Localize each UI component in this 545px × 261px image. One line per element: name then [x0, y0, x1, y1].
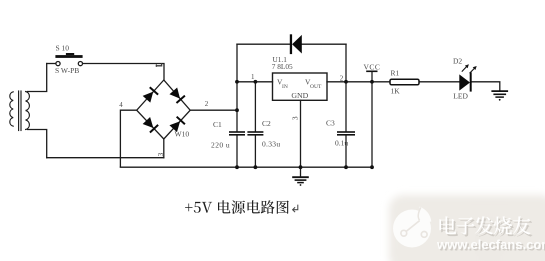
- svg-text:1K: 1K: [391, 86, 401, 95]
- junction dot VCC: [370, 80, 374, 84]
- svg-text:S W-PB: S W-PB: [55, 66, 79, 75]
- wire: regulator output to R1 to LED: [327, 81, 459, 83]
- caption +5V power supply circuit title: [185, 200, 289, 214]
- svg-text:GND: GND: [291, 91, 308, 100]
- wire: top rail around D1: [237, 43, 346, 45]
- junction dot GND rail: [299, 165, 303, 169]
- watermark background patch: [389, 195, 545, 261]
- watermark logo trace cutout: [418, 208, 421, 221]
- wire: rail to bridge pin3: [47, 157, 164, 159]
- junction dot C3 bottom: [344, 165, 348, 169]
- wire: regulator GND lead: [300, 100, 302, 176]
- watermark logo flame tip: [418, 207, 431, 225]
- svg-text:4: 4: [119, 101, 123, 109]
- svg-text:D2: D2: [453, 56, 462, 65]
- regulator U1 box: [273, 73, 328, 100]
- svg-text:LED: LED: [453, 92, 468, 101]
- wire: C2 lead: [254, 82, 256, 167]
- wire: bridge pin3 drop: [163, 139, 165, 158]
- svg-text:VCC: VCC: [364, 62, 381, 71]
- svg-text:0.1u: 0.1u: [335, 138, 348, 147]
- svg-text:W10: W10: [175, 129, 190, 138]
- svg-text:220 u: 220 u: [211, 141, 230, 150]
- transformer T1 primary winding: [10, 92, 13, 126]
- svg-text:0.33u: 0.33u: [262, 140, 280, 149]
- capacitor C3 plates: [337, 131, 355, 133]
- svg-text:C3: C3: [326, 119, 335, 128]
- wire: switch to bridge top vertex: [83, 64, 164, 81]
- capacitor C1 plates: [229, 131, 245, 133]
- svg-text:2: 2: [205, 100, 209, 108]
- wire: top-rail right drop and C3 lead: [345, 44, 347, 167]
- bridge diode bottom-left: [142, 117, 159, 134]
- svg-text:7 8L05: 7 8L05: [272, 62, 293, 71]
- svg-text:C1: C1: [213, 120, 222, 129]
- junction dot C3 top: [344, 80, 348, 84]
- bridge diode top-right: [169, 87, 185, 104]
- junction dot node2 top: [235, 80, 239, 84]
- svg-text:C2: C2: [262, 119, 271, 128]
- diode D1 body: [292, 35, 302, 54]
- wire: switch left lead: [47, 63, 56, 65]
- wire: secondary top to switch: [28, 64, 47, 92]
- wire: bridge pin2 to C1 node: [190, 109, 237, 111]
- svg-text:1: 1: [251, 73, 255, 81]
- wire: C1 lead and top-rail left drop: [236, 44, 238, 167]
- ground symbol below regulator: [292, 177, 309, 182]
- watermark logo disc: [393, 210, 431, 248]
- bridge diode top-left: [142, 86, 158, 103]
- bridge diode bottom-right: [169, 116, 185, 133]
- ground symbol right of LED: [491, 91, 508, 97]
- svg-text:3: 3: [156, 153, 165, 157]
- bridge pin 1 number: [156, 63, 162, 67]
- switch S1 SW-PB bar: [55, 55, 82, 58]
- transformer T1 core: [18, 91, 20, 131]
- wire: ground rail: [120, 166, 372, 168]
- bridge W10 diamond: [137, 80, 191, 139]
- wire: secondary bottom down to rail: [28, 130, 47, 158]
- svg-text:www.elecfans.com: www.elecfans.com: [436, 237, 545, 252]
- junction dot C2 bottom: [254, 165, 258, 169]
- wire: bridge pin4 to ground rail: [120, 110, 136, 167]
- LED D2 body: [459, 74, 470, 90]
- junction dot rail corner: [370, 165, 374, 169]
- VCC power symbol bar: [366, 71, 377, 73]
- switch S1 left terminal: [56, 62, 60, 66]
- junction dot C2 top: [254, 80, 258, 84]
- watermark brand text: [441, 218, 532, 236]
- resistor R1 body: [390, 79, 419, 85]
- wire: LED cathode to ground: [472, 82, 500, 91]
- LED D2 emission arrows: [462, 64, 477, 73]
- switch S1 actuator nub: [66, 53, 74, 55]
- svg-text:IN: IN: [282, 84, 288, 90]
- LED D2 cathode bar: [470, 72, 472, 91]
- junction dot C1 bottom: [235, 165, 239, 169]
- diode D1 cathode bar: [290, 34, 292, 54]
- svg-text:S 10: S 10: [56, 44, 70, 53]
- wire: regulator input: [237, 81, 273, 83]
- caption return mark: [293, 205, 298, 213]
- svg-text:3: 3: [291, 116, 300, 120]
- transformer T1 secondary winding: [26, 92, 30, 130]
- svg-text:2: 2: [340, 74, 344, 82]
- svg-text:R1: R1: [391, 69, 400, 78]
- capacitor C2 plates: [247, 131, 263, 133]
- junction dot bridge out: [235, 108, 239, 112]
- wire: VCC stub down to rail corner: [371, 72, 373, 168]
- svg-text:OUT: OUT: [310, 84, 322, 90]
- switch S1 right terminal: [78, 62, 82, 66]
